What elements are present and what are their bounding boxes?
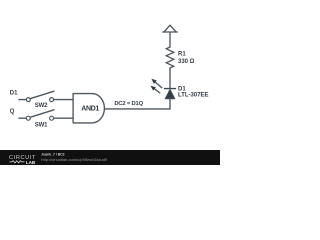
wire bbox=[19, 99, 26, 101]
svg-text:Juank_7 / BC2: Juank_7 / BC2 bbox=[41, 153, 64, 157]
AND gate AND1 bbox=[73, 94, 104, 123]
LED D1 bbox=[150, 79, 175, 99]
svg-text:LAB: LAB bbox=[26, 160, 36, 165]
resistor R1 bbox=[166, 47, 173, 68]
wire bbox=[19, 117, 26, 119]
wire bbox=[54, 117, 74, 119]
footer text bbox=[41, 153, 108, 163]
svg-text:R1: R1 bbox=[178, 52, 186, 58]
CircuitLab logo bbox=[9, 155, 36, 165]
svg-text:SW2: SW2 bbox=[35, 103, 48, 109]
footer bar bbox=[0, 150, 220, 165]
svg-text:D1: D1 bbox=[178, 86, 186, 92]
wire bbox=[105, 108, 171, 110]
svg-text:D1: D1 bbox=[10, 91, 18, 97]
switch SW1 bbox=[26, 110, 54, 120]
svg-text:SW1: SW1 bbox=[35, 122, 48, 128]
svg-text:AND1: AND1 bbox=[81, 104, 99, 112]
svg-text:http://circuitlab.com/c/p95esb: http://circuitlab.com/c/p95esb34aud9 bbox=[41, 157, 108, 162]
wire bbox=[169, 68, 171, 88]
wire bbox=[169, 99, 171, 109]
svg-text:DC2 = D1Q: DC2 = D1Q bbox=[114, 101, 143, 107]
power VCC bbox=[163, 25, 177, 32]
switch SW2 bbox=[26, 91, 54, 101]
svg-text:330 Ω: 330 Ω bbox=[178, 59, 195, 65]
svg-text:Q: Q bbox=[10, 109, 15, 115]
wire bbox=[169, 32, 171, 47]
svg-text:LTL-307EE: LTL-307EE bbox=[178, 93, 209, 99]
wire bbox=[54, 99, 74, 101]
